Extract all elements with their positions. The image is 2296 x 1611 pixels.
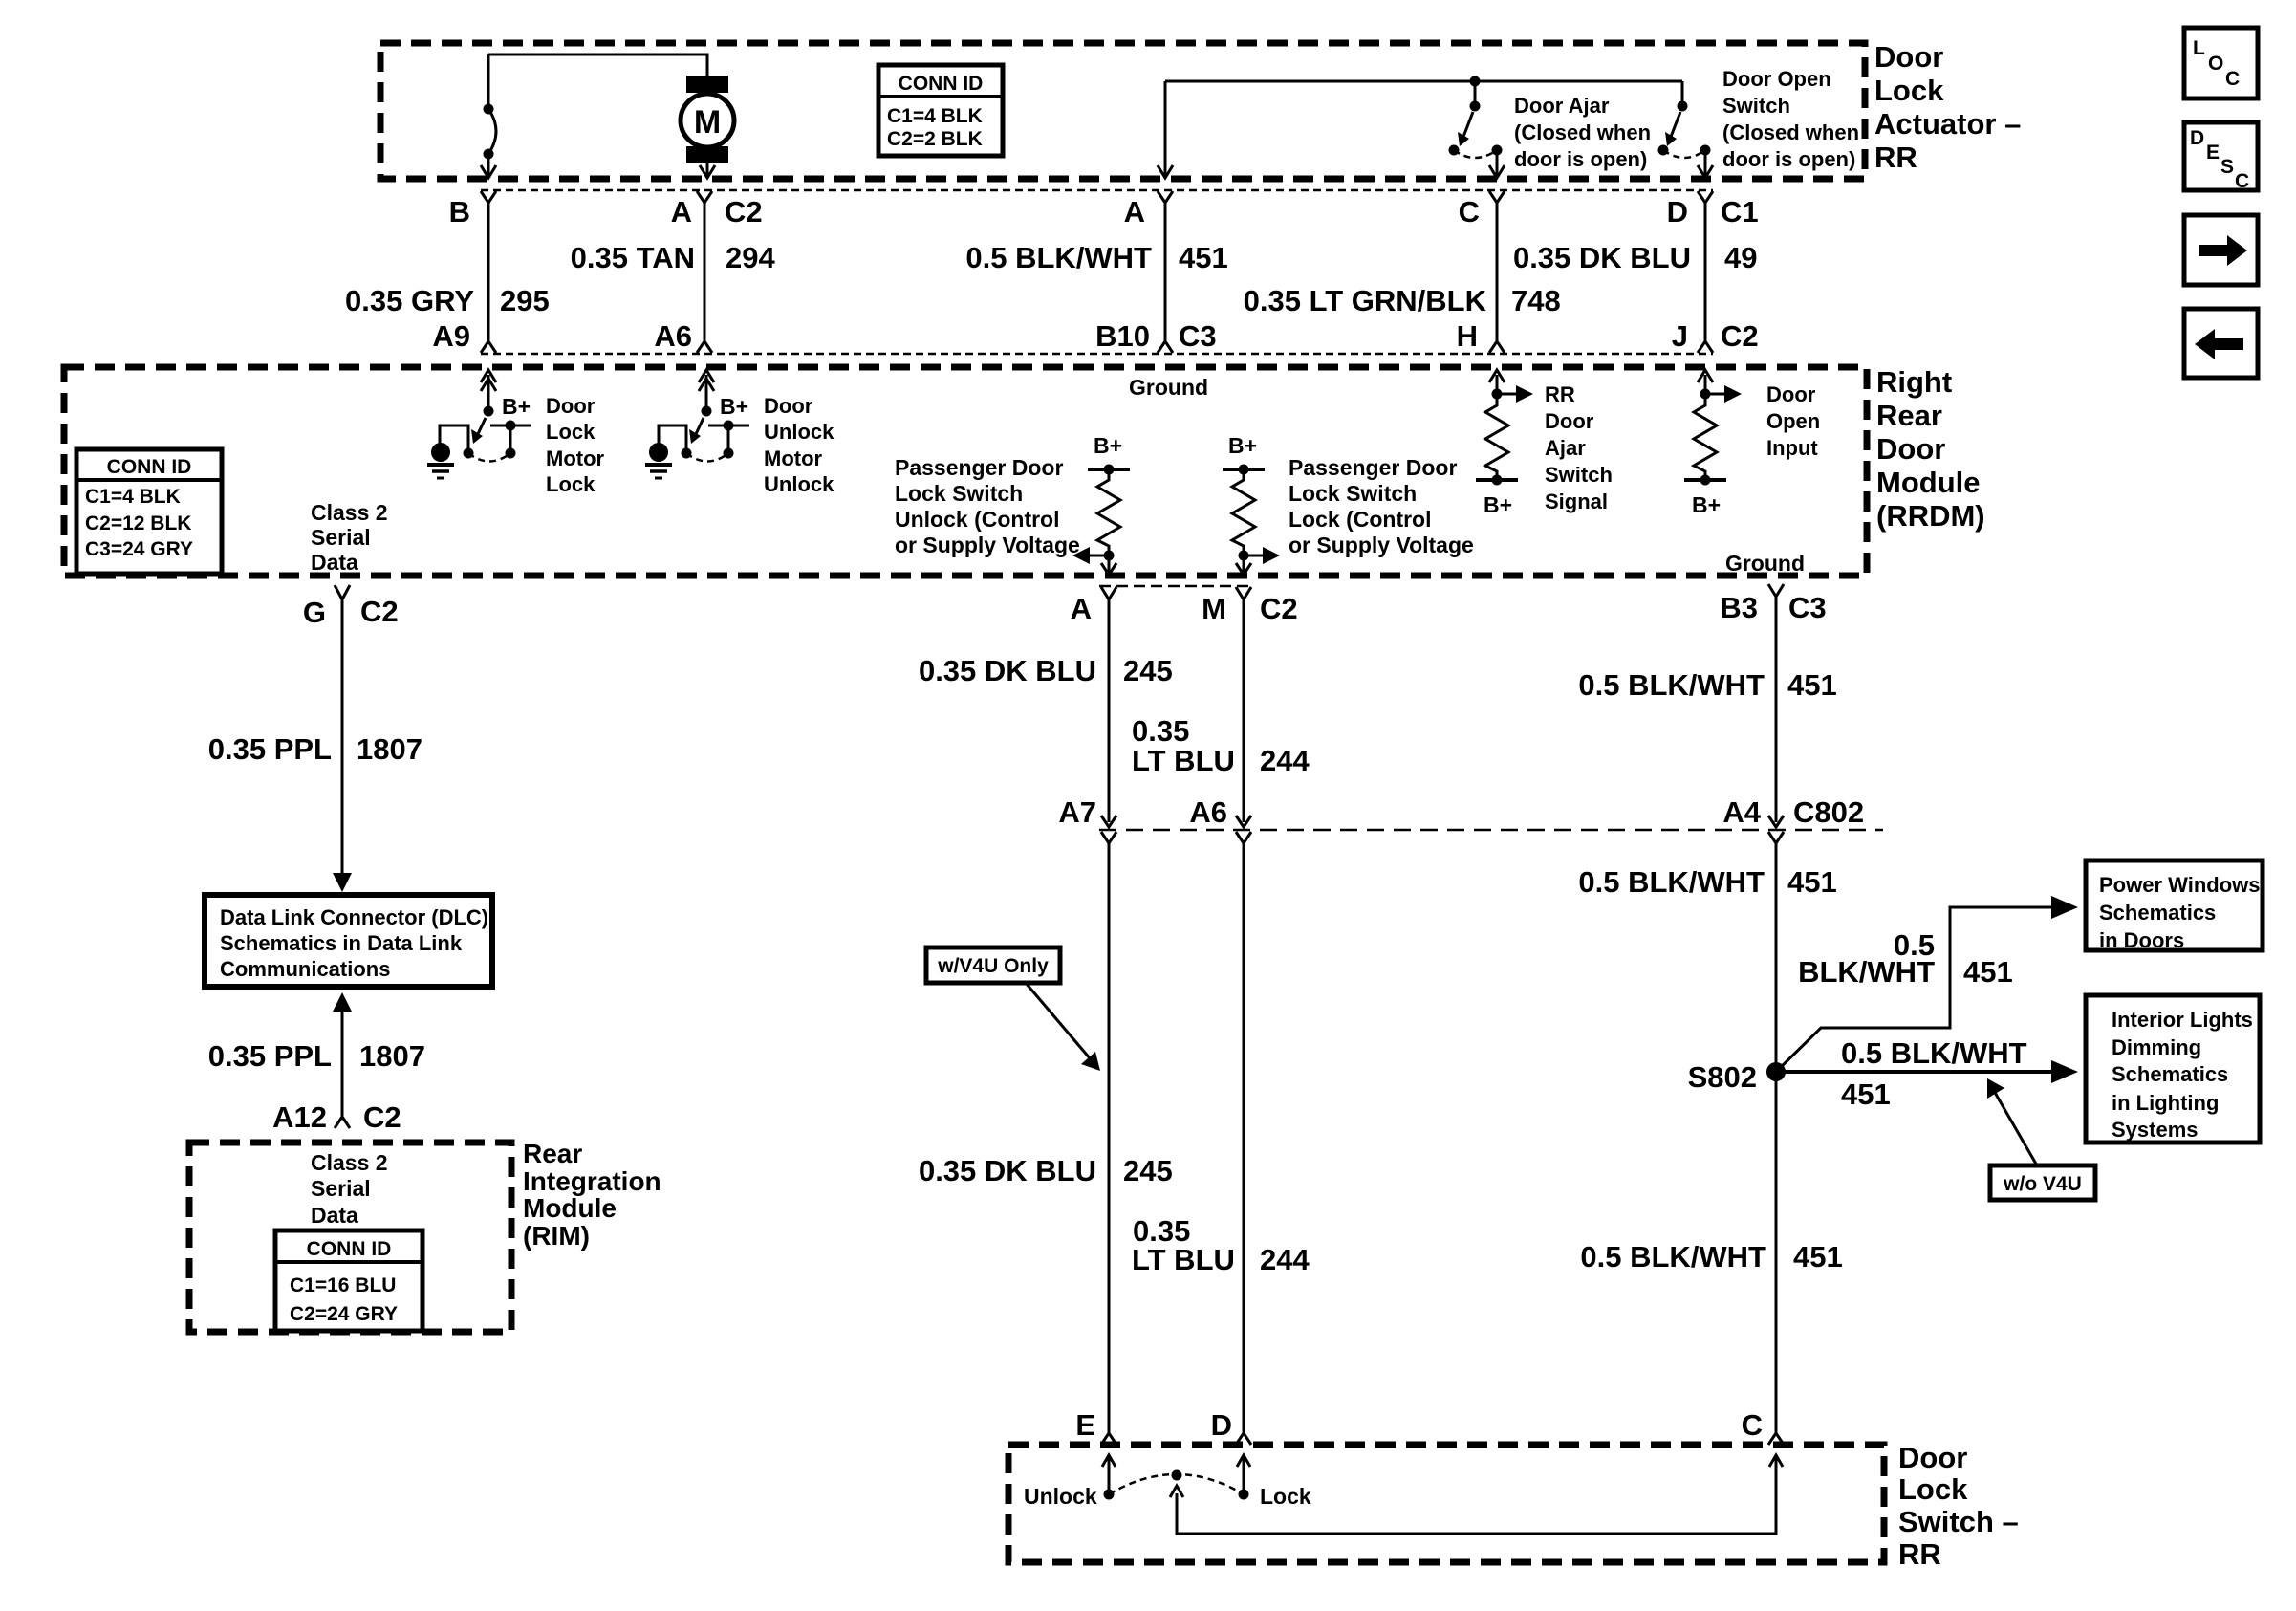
- svg-text:in Doors: in Doors: [2099, 928, 2184, 952]
- svg-text:Lock: Lock: [546, 472, 596, 496]
- svg-text:Lock Switch: Lock Switch: [1289, 481, 1417, 506]
- svg-text:A7: A7: [1058, 795, 1096, 829]
- svg-text:Switch –: Switch –: [1898, 1505, 2019, 1538]
- svg-text:Lock: Lock: [1898, 1472, 1968, 1506]
- svg-text:Rear: Rear: [523, 1139, 582, 1168]
- svg-text:Module: Module: [523, 1193, 617, 1223]
- svg-text:A: A: [671, 195, 692, 229]
- svg-text:RR: RR: [1898, 1537, 1941, 1571]
- svg-text:or Supply Voltage: or Supply Voltage: [895, 533, 1080, 557]
- svg-text:M: M: [694, 104, 721, 141]
- svg-text:Schematics: Schematics: [2099, 901, 2216, 925]
- svg-text:E: E: [1075, 1408, 1095, 1442]
- svg-text:245: 245: [1123, 1154, 1173, 1187]
- svg-text:C: C: [1742, 1408, 1763, 1442]
- svg-text:B3: B3: [1720, 591, 1758, 624]
- svg-text:Right: Right: [1876, 365, 1952, 399]
- svg-text:C1: C1: [1721, 195, 1759, 229]
- svg-text:Unlock: Unlock: [1024, 1484, 1097, 1509]
- svg-text:H: H: [1457, 319, 1478, 353]
- svg-text:C1=4 BLK: C1=4 BLK: [85, 486, 181, 508]
- svg-text:B10: B10: [1095, 319, 1150, 353]
- svg-text:49: 49: [1724, 241, 1757, 274]
- svg-text:Schematics in Data Link: Schematics in Data Link: [220, 931, 463, 955]
- svg-text:Unlock: Unlock: [764, 472, 834, 496]
- svg-text:C: C: [2225, 68, 2240, 90]
- svg-text:Class 2: Class 2: [311, 1150, 388, 1175]
- svg-text:A: A: [1124, 195, 1145, 229]
- svg-text:(Closed when: (Closed when: [1722, 120, 1859, 144]
- svg-text:Ajar: Ajar: [1545, 436, 1586, 460]
- svg-text:C2=2 BLK: C2=2 BLK: [887, 128, 983, 150]
- svg-text:Communications: Communications: [220, 957, 390, 981]
- svg-text:(RRDM): (RRDM): [1876, 499, 1985, 533]
- svg-text:C2: C2: [363, 1100, 401, 1134]
- svg-text:Switch: Switch: [1545, 463, 1613, 487]
- svg-text:BLK/WHT: BLK/WHT: [1798, 955, 1935, 989]
- svg-text:451: 451: [1179, 241, 1228, 274]
- svg-text:Data: Data: [311, 550, 358, 575]
- svg-text:Data Link Connector (DLC): Data Link Connector (DLC): [220, 905, 488, 929]
- svg-text:Door: Door: [1876, 432, 1945, 466]
- svg-text:0.35 GRY: 0.35 GRY: [345, 284, 474, 317]
- svg-text:C2: C2: [1721, 319, 1759, 353]
- svg-text:Module: Module: [1876, 466, 1981, 499]
- svg-text:Power Windows: Power Windows: [2099, 873, 2260, 897]
- svg-text:CONN ID: CONN ID: [307, 1238, 392, 1260]
- svg-text:Actuator –: Actuator –: [1874, 107, 2021, 141]
- svg-text:C1=4 BLK: C1=4 BLK: [887, 105, 983, 127]
- svg-text:E: E: [2206, 142, 2220, 163]
- svg-text:295: 295: [500, 284, 550, 317]
- svg-text:RR: RR: [1874, 141, 1917, 174]
- svg-text:Lock Switch: Lock Switch: [895, 481, 1023, 506]
- svg-text:C2: C2: [725, 195, 763, 229]
- svg-text:Door Open: Door Open: [1722, 67, 1831, 91]
- svg-text:Door: Door: [764, 394, 813, 418]
- svg-text:Rear: Rear: [1876, 399, 1942, 432]
- svg-text:Door: Door: [1874, 40, 1943, 74]
- svg-text:C: C: [1459, 195, 1480, 229]
- svg-text:C: C: [2235, 170, 2249, 192]
- svg-text:0.35 PPL: 0.35 PPL: [208, 1039, 332, 1073]
- svg-text:A9: A9: [432, 319, 470, 353]
- svg-text:(RIM): (RIM): [523, 1221, 590, 1251]
- svg-text:(Closed when: (Closed when: [1514, 120, 1651, 144]
- svg-text:244: 244: [1260, 744, 1310, 777]
- svg-text:S: S: [2220, 156, 2234, 178]
- svg-text:w/V4U Only: w/V4U Only: [937, 955, 1049, 977]
- svg-text:Lock (Control: Lock (Control: [1289, 507, 1432, 532]
- svg-text:door is open): door is open): [1514, 147, 1647, 171]
- svg-text:Systems: Systems: [2112, 1118, 2199, 1142]
- svg-text:0.5 BLK/WHT: 0.5 BLK/WHT: [1578, 865, 1765, 899]
- svg-text:C3: C3: [1179, 319, 1217, 353]
- svg-text:0.35: 0.35: [1132, 714, 1189, 748]
- svg-text:451: 451: [1793, 1240, 1843, 1274]
- svg-text:B+: B+: [1484, 492, 1512, 517]
- svg-text:244: 244: [1260, 1243, 1310, 1276]
- svg-text:0.35 DK BLU: 0.35 DK BLU: [919, 654, 1096, 687]
- svg-text:0.5 BLK/WHT: 0.5 BLK/WHT: [965, 241, 1152, 274]
- svg-text:Unlock (Control: Unlock (Control: [895, 507, 1060, 532]
- svg-text:Passenger Door: Passenger Door: [1289, 455, 1457, 480]
- svg-text:Class 2: Class 2: [311, 500, 388, 525]
- svg-text:Integration: Integration: [523, 1166, 661, 1196]
- svg-text:B+: B+: [720, 394, 748, 419]
- svg-text:D: D: [2190, 127, 2204, 149]
- svg-text:Switch: Switch: [1722, 94, 1790, 118]
- svg-text:Interior Lights: Interior Lights: [2112, 1008, 2253, 1032]
- svg-text:B+: B+: [1692, 492, 1721, 517]
- svg-text:Serial: Serial: [311, 1176, 371, 1201]
- svg-text:Ground: Ground: [1725, 551, 1805, 576]
- svg-text:Data: Data: [311, 1203, 358, 1228]
- svg-text:A: A: [1071, 592, 1092, 625]
- svg-text:M: M: [1202, 592, 1226, 625]
- svg-text:in Lighting: in Lighting: [2112, 1091, 2219, 1115]
- svg-text:C2=24 GRY: C2=24 GRY: [290, 1303, 398, 1325]
- svg-text:0.35 LT GRN/BLK: 0.35 LT GRN/BLK: [1244, 284, 1487, 317]
- svg-text:LT BLU: LT BLU: [1132, 1243, 1235, 1276]
- svg-text:0.5 BLK/WHT: 0.5 BLK/WHT: [1841, 1036, 2027, 1070]
- svg-text:Door: Door: [1766, 382, 1816, 406]
- svg-text:C3=24 GRY: C3=24 GRY: [85, 538, 193, 560]
- svg-text:Ground: Ground: [1129, 375, 1208, 400]
- svg-text:C802: C802: [1793, 795, 1864, 829]
- svg-text:A6: A6: [1189, 795, 1227, 829]
- svg-text:1807: 1807: [357, 732, 422, 766]
- svg-text:Door: Door: [1545, 409, 1594, 433]
- svg-text:G: G: [303, 596, 326, 629]
- svg-text:Motor: Motor: [546, 446, 605, 470]
- svg-text:A6: A6: [654, 319, 692, 353]
- svg-text:or Supply Voltage: or Supply Voltage: [1289, 533, 1474, 557]
- svg-text:RR: RR: [1545, 382, 1575, 406]
- svg-text:C2: C2: [1260, 592, 1298, 625]
- svg-text:CONN ID: CONN ID: [107, 456, 192, 478]
- svg-text:Input: Input: [1766, 436, 1818, 460]
- svg-text:C2=12 BLK: C2=12 BLK: [85, 512, 191, 534]
- svg-text:A12: A12: [272, 1100, 327, 1134]
- svg-text:B+: B+: [1094, 433, 1122, 458]
- svg-text:Signal: Signal: [1545, 490, 1608, 513]
- svg-text:D: D: [1667, 195, 1688, 229]
- svg-text:294: 294: [726, 241, 775, 274]
- svg-text:0.35 DK BLU: 0.35 DK BLU: [1513, 241, 1691, 274]
- svg-text:Open: Open: [1766, 409, 1820, 433]
- svg-text:1807: 1807: [359, 1039, 425, 1073]
- svg-text:O: O: [2208, 53, 2223, 75]
- svg-text:door is open): door is open): [1722, 147, 1855, 171]
- svg-text:Dimming: Dimming: [2112, 1035, 2201, 1059]
- svg-text:Serial: Serial: [311, 525, 371, 550]
- svg-text:Passenger Door: Passenger Door: [895, 455, 1063, 480]
- svg-text:S802: S802: [1688, 1060, 1757, 1094]
- svg-text:Unlock: Unlock: [764, 420, 834, 444]
- svg-text:Door Ajar: Door Ajar: [1514, 94, 1610, 118]
- svg-text:0.35 TAN: 0.35 TAN: [571, 241, 695, 274]
- svg-text:Lock: Lock: [1874, 74, 1944, 107]
- svg-text:CONN ID: CONN ID: [899, 73, 984, 95]
- svg-text:Motor: Motor: [764, 446, 823, 470]
- svg-text:748: 748: [1511, 284, 1561, 317]
- svg-text:Schematics: Schematics: [2112, 1062, 2228, 1086]
- svg-text:451: 451: [1787, 865, 1837, 899]
- svg-text:D: D: [1211, 1408, 1232, 1442]
- svg-text:Lock: Lock: [546, 420, 596, 444]
- svg-text:B: B: [449, 195, 470, 229]
- svg-text:451: 451: [1963, 955, 2013, 989]
- svg-text:0.5 BLK/WHT: 0.5 BLK/WHT: [1578, 668, 1765, 702]
- svg-text:0.5 BLK/WHT: 0.5 BLK/WHT: [1580, 1240, 1766, 1274]
- svg-text:A4: A4: [1722, 795, 1761, 829]
- svg-text:451: 451: [1841, 1078, 1891, 1111]
- svg-text:B+: B+: [1228, 433, 1257, 458]
- svg-text:451: 451: [1787, 668, 1837, 702]
- svg-text:C1=16 BLU: C1=16 BLU: [290, 1274, 396, 1296]
- svg-text:LT BLU: LT BLU: [1132, 744, 1235, 777]
- svg-text:0.35 DK BLU: 0.35 DK BLU: [919, 1154, 1096, 1187]
- svg-text:C2: C2: [360, 595, 399, 628]
- svg-text:245: 245: [1123, 654, 1173, 687]
- svg-text:Lock: Lock: [1260, 1484, 1311, 1509]
- svg-text:B+: B+: [502, 394, 531, 419]
- svg-text:L: L: [2193, 37, 2205, 59]
- svg-text:w/o V4U: w/o V4U: [2003, 1173, 2082, 1195]
- svg-text:Door: Door: [1898, 1441, 1967, 1474]
- svg-text:0.35 PPL: 0.35 PPL: [208, 732, 332, 766]
- svg-text:C3: C3: [1788, 591, 1827, 624]
- svg-text:J: J: [1672, 319, 1688, 353]
- svg-text:Door: Door: [546, 394, 596, 418]
